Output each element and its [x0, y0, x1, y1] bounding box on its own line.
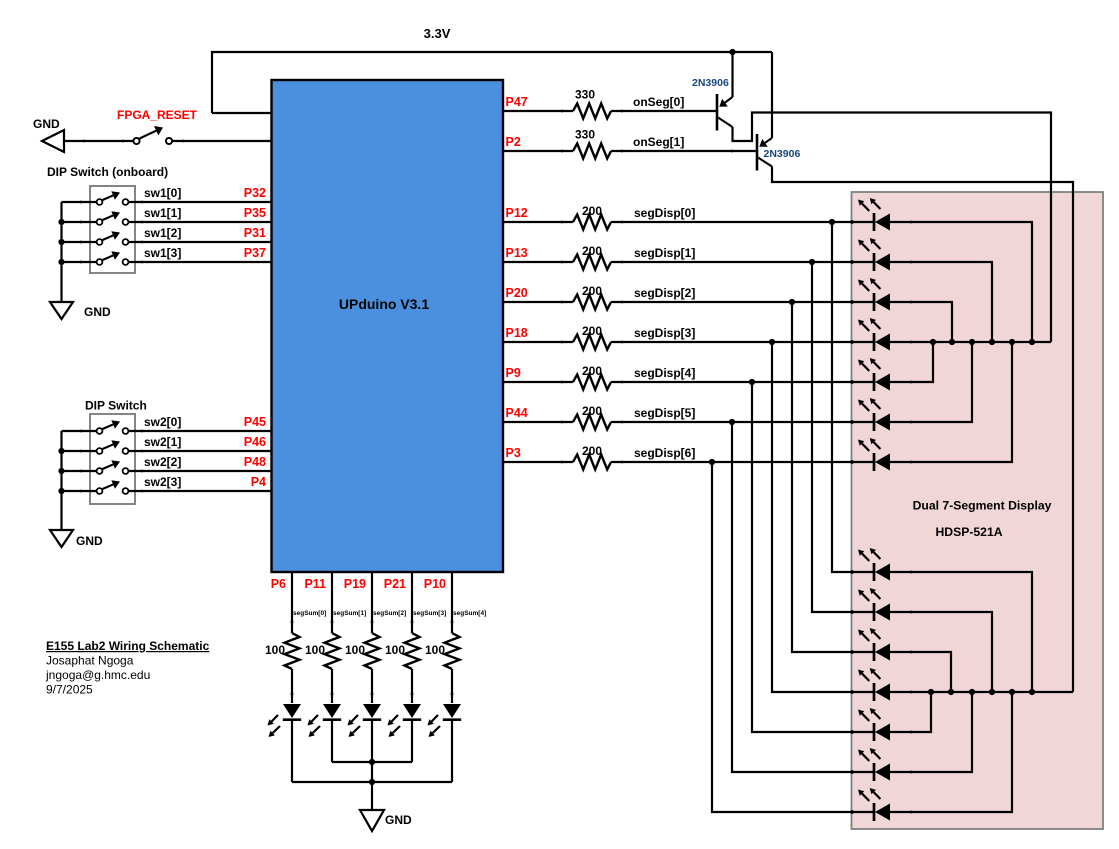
wire LED segSum[2] to gnd bus: [371, 721, 373, 810]
resistor 200 segDisp[3]: [573, 335, 611, 350]
wire LED segSum[3] to gnd bus: [411, 721, 413, 762]
resistor 200 segDisp[5]: [573, 415, 611, 430]
wire sw1[1] to FPGA: [128, 221, 271, 223]
svg-text:FPGA_RESET: FPGA_RESET: [117, 108, 198, 122]
resistor 100 segSum[3]: [405, 633, 420, 669]
svg-text:330: 330: [575, 128, 595, 142]
LED digit1 seg5: [873, 413, 876, 431]
wire segDisp[5] drop to digit2: [732, 422, 874, 772]
svg-text:P35: P35: [244, 206, 266, 220]
resistor 200 segDisp[1]: [573, 255, 611, 270]
svg-text:segDisp[5]: segDisp[5]: [634, 406, 695, 420]
svg-text:P13: P13: [506, 246, 528, 260]
wire resistor to LED segSum[3]: [411, 669, 413, 703]
svg-text:sw1[1]: sw1[1]: [144, 206, 181, 220]
svg-text:P18: P18: [506, 326, 528, 340]
LED digit2 seg3: [873, 683, 876, 701]
junction sw2 common: [58, 448, 64, 454]
svg-text:P4: P4: [251, 475, 266, 489]
svg-text:P44: P44: [506, 406, 528, 420]
resistor R1 330: [573, 104, 611, 119]
wire digit1 seg5 anode: [890, 342, 972, 422]
wire sw2[2] to FPGA: [128, 470, 271, 472]
svg-text:P31: P31: [244, 226, 266, 240]
svg-text:P21: P21: [384, 577, 406, 591]
svg-text:GND: GND: [84, 305, 111, 319]
wire Q1 emitter to 3.3V: [731, 52, 733, 97]
LED digit1 seg3: [873, 333, 876, 351]
svg-text:sw2[2]: sw2[2]: [144, 455, 181, 469]
wire sw1[3] to FPGA: [128, 261, 271, 263]
wire digit2 seg2 anode: [890, 652, 951, 692]
wire reset switch to FPGA: [172, 140, 272, 142]
wire segDisp[3] drop to digit2: [772, 342, 874, 692]
svg-text:segSum[4]: segSum[4]: [453, 610, 486, 617]
LED segSum[3]: [403, 704, 421, 718]
LED digit2 seg2: [873, 643, 876, 661]
svg-text:P32: P32: [244, 186, 266, 200]
svg-text:2N3906: 2N3906: [764, 148, 801, 160]
svg-text:GND: GND: [33, 117, 60, 131]
LED digit2 seg0: [873, 563, 876, 581]
svg-text:200: 200: [582, 404, 602, 418]
svg-text:P2: P2: [506, 135, 521, 149]
wire P3 to resistor: [503, 461, 573, 463]
switch S1.2: [97, 219, 103, 225]
resistor 200 segDisp[6]: [573, 455, 611, 470]
LED digit1 seg0: [873, 213, 876, 231]
wire gnd bus inner: [332, 761, 412, 763]
wire segDisp[2] to LED digit1: [611, 301, 874, 303]
svg-text:P10: P10: [424, 577, 446, 591]
wire segDisp[0] to LED digit1: [611, 221, 874, 223]
svg-text:UPduino V3.1: UPduino V3.1: [339, 296, 429, 312]
svg-text:200: 200: [582, 204, 602, 218]
switch S1.3: [97, 239, 103, 245]
LED digit1 seg6: [873, 453, 876, 471]
wire resistor to LED segSum[2]: [371, 669, 373, 703]
svg-text:200: 200: [582, 364, 602, 378]
svg-text:P20: P20: [506, 286, 528, 300]
wire sw1[2] gnd stub: [62, 241, 97, 243]
svg-text:GND: GND: [385, 813, 412, 827]
wire P13 to resistor: [503, 261, 573, 263]
resistor R2 330: [573, 144, 611, 159]
switch S2.1: [97, 428, 103, 434]
LED digit1 seg4: [873, 373, 876, 391]
LED digit2 seg4: [873, 723, 876, 741]
svg-text:100: 100: [345, 643, 365, 657]
transistor Q2 2N3906: [756, 134, 759, 171]
wire digit1 seg4 anode: [890, 342, 933, 382]
svg-text:9/7/2025: 9/7/2025: [46, 683, 93, 697]
wire P12 to resistor: [503, 221, 573, 223]
switch S2.2: [97, 448, 103, 454]
wire segDisp[5] to LED digit1: [611, 421, 874, 423]
wire P19 to resistor: [371, 572, 373, 633]
svg-text:100: 100: [425, 643, 445, 657]
junction segDisp[4]: [749, 379, 755, 385]
svg-text:sw2[1]: sw2[1]: [144, 435, 181, 449]
svg-text:segDisp[2]: segDisp[2]: [634, 286, 695, 300]
wire P18 to resistor: [503, 341, 573, 343]
wire digit1 seg6 anode: [890, 342, 1012, 462]
wire onSeg[1] to Q2 base: [611, 150, 756, 152]
wire digit2 seg1 anode: [890, 612, 992, 692]
transistor Q1 2N3906: [716, 94, 719, 131]
svg-text:P3: P3: [506, 446, 521, 460]
switch S2.4: [97, 488, 103, 494]
resistor 100 segSum[4]: [445, 633, 460, 669]
svg-text:Dual 7-Segment Display: Dual 7-Segment Display: [913, 499, 1052, 513]
svg-text:segDisp[6]: segDisp[6]: [634, 446, 695, 460]
wire sw1 common: [60, 202, 62, 302]
svg-text:segDisp[0]: segDisp[0]: [634, 206, 695, 220]
wire Q1 collector: [733, 113, 1052, 343]
svg-text:P19: P19: [344, 577, 366, 591]
LED digit1 seg1: [873, 253, 876, 271]
svg-text:P11: P11: [304, 577, 326, 591]
wire LED segSum[1] to gnd bus: [331, 721, 333, 762]
wire sw2[0] gnd stub: [62, 430, 97, 432]
wire sw1[3] gnd stub: [62, 261, 97, 263]
svg-text:2N3906: 2N3906: [692, 77, 729, 89]
wire LED segSum[0] to gnd bus: [291, 721, 293, 782]
svg-text:segDisp[1]: segDisp[1]: [634, 246, 695, 260]
ground GND (sw2): [50, 530, 73, 547]
wire sw1[0] gnd stub: [62, 201, 97, 203]
wire digit2 common anode: [890, 691, 1073, 693]
svg-text:P6: P6: [271, 577, 286, 591]
wire 3.3V into FPGA: [212, 112, 272, 114]
wire segDisp[6] drop to digit2: [712, 462, 874, 812]
wire digit1 seg1 anode: [890, 262, 992, 342]
resistor 100 segSum[0]: [285, 633, 300, 669]
wire P2 to R2: [503, 150, 573, 152]
resistor 200 segDisp[0]: [573, 215, 611, 230]
svg-text:sw1[2]: sw1[2]: [144, 226, 181, 240]
ground GND (sw1): [50, 302, 73, 319]
wire digit2 seg4 anode: [890, 692, 931, 732]
wire onSeg[0] to Q1 base: [611, 110, 716, 112]
LED digit2 seg1: [873, 603, 876, 621]
svg-text:P12: P12: [506, 206, 528, 220]
wire digit2 seg5 anode: [890, 692, 972, 772]
svg-text:sw1[0]: sw1[0]: [144, 186, 181, 200]
svg-text:P45: P45: [244, 415, 266, 429]
LED segSum[0]: [283, 704, 301, 718]
wire segDisp[4] drop to digit2: [752, 382, 874, 732]
switch S1.4: [97, 259, 103, 265]
wire LED segSum[4] to gnd bus: [451, 721, 453, 782]
wire sw1[0] to FPGA: [128, 201, 271, 203]
wire digit2 seg0 anode: [890, 572, 1032, 692]
svg-text:P9: P9: [506, 366, 521, 380]
wire Q2 collector: [772, 167, 1073, 693]
LED segSum[1]: [323, 704, 341, 718]
wire P21 to resistor: [411, 572, 413, 633]
junction 3.3V / Q1 emitter: [729, 49, 735, 55]
wire digit1 seg2 anode: [890, 302, 952, 342]
switch S1.1: [97, 199, 103, 205]
svg-text:100: 100: [385, 643, 405, 657]
junction segDisp[1]: [809, 259, 815, 265]
wire sw1[2] to FPGA: [128, 241, 271, 243]
LED segSum[2]: [363, 704, 381, 718]
svg-text:segDisp[3]: segDisp[3]: [634, 326, 695, 340]
LED digit1 seg2: [873, 293, 876, 311]
junction segDisp[0]: [829, 219, 835, 225]
svg-text:jngoga@g.hmc.edu: jngoga@g.hmc.edu: [45, 668, 150, 682]
wire reset gnd to switch: [64, 140, 134, 142]
wire resistor to LED segSum[1]: [331, 669, 333, 703]
wire P11 to resistor: [331, 572, 333, 633]
wire segDisp[4] to LED digit1: [611, 381, 874, 383]
wire gnd bus outer: [292, 781, 452, 783]
svg-text:330: 330: [575, 88, 595, 102]
wire sw2[2] gnd stub: [62, 470, 97, 472]
svg-text:sw2[3]: sw2[3]: [144, 475, 181, 489]
svg-text:Josaphat Ngoga: Josaphat Ngoga: [46, 654, 134, 668]
wire sw2[1] gnd stub: [62, 450, 97, 452]
wire P47 to R1: [503, 110, 573, 112]
wire segDisp[3] to LED digit1: [611, 341, 874, 343]
svg-text:DIP Switch (onboard): DIP Switch (onboard): [47, 165, 168, 179]
wire segDisp[1] to LED digit1: [611, 261, 874, 263]
svg-text:200: 200: [582, 244, 602, 258]
ground GND (reset): [42, 130, 64, 152]
DIP switch S1 body: [90, 186, 135, 273]
wire digit1 common anode: [890, 341, 1051, 343]
wire sw2 common: [60, 431, 62, 530]
svg-text:GND: GND: [76, 534, 103, 548]
svg-text:onSeg[1]: onSeg[1]: [633, 135, 684, 149]
wire sw2[0] to FPGA: [128, 430, 271, 432]
resistor 100 segSum[1]: [325, 633, 340, 669]
LED digit2 seg6: [873, 803, 876, 821]
junction segDisp[3]: [769, 339, 775, 345]
wire 3.3V rail: [212, 52, 772, 113]
svg-text:sw1[3]: sw1[3]: [144, 246, 181, 260]
resistor 200 segDisp[4]: [573, 375, 611, 390]
resistor 200 segDisp[2]: [573, 295, 611, 310]
ground GND (segSum): [360, 810, 384, 831]
wire sw2[3] to FPGA: [128, 490, 271, 492]
wire sw2[3] gnd stub: [62, 490, 97, 492]
svg-text:100: 100: [305, 643, 325, 657]
svg-text:segSum[0]: segSum[0]: [293, 610, 326, 617]
svg-text:segSum[3]: segSum[3]: [413, 610, 446, 617]
junction segDisp[2]: [789, 299, 795, 305]
svg-text:segSum[2]: segSum[2]: [373, 610, 406, 617]
LED segSum[4]: [443, 704, 461, 718]
junction segDisp[5]: [729, 419, 735, 425]
svg-text:100: 100: [265, 643, 285, 657]
wire P6 to resistor: [291, 572, 293, 633]
wire P9 to resistor: [503, 381, 573, 383]
svg-text:200: 200: [582, 444, 602, 458]
wire Q2 emitter to 3.3V: [771, 52, 773, 138]
wire sw1[1] gnd stub: [62, 221, 97, 223]
wire resistor to LED segSum[0]: [291, 669, 293, 703]
wire segDisp[2] drop to digit2: [792, 302, 874, 652]
wire resistor to LED segSum[4]: [451, 669, 453, 703]
wire digit1 seg0 anode: [890, 222, 1032, 342]
junction gnd bus: [369, 759, 375, 765]
wire sw2[1] to FPGA: [128, 450, 271, 452]
svg-text:sw2[0]: sw2[0]: [144, 415, 181, 429]
wire digit2 seg6 anode: [890, 692, 1012, 812]
svg-text:E155 Lab2 Wiring Schematic: E155 Lab2 Wiring Schematic: [46, 639, 210, 653]
wire P20 to resistor: [503, 301, 573, 303]
svg-text:200: 200: [582, 284, 602, 298]
svg-text:HDSP-521A: HDSP-521A: [935, 525, 1002, 539]
svg-text:segDisp[4]: segDisp[4]: [634, 366, 695, 380]
LED digit2 seg5: [873, 763, 876, 781]
svg-text:P46: P46: [244, 435, 266, 449]
wire segDisp[0] drop to digit2: [832, 222, 874, 572]
wire P44 to resistor: [503, 421, 573, 423]
DIP switch S2 body: [90, 414, 135, 504]
display Dual 7-Segment HDSP-521A: [852, 192, 1104, 829]
switch FPGA_RESET: [133, 138, 139, 144]
switch S2.3: [97, 468, 103, 474]
svg-text:200: 200: [582, 324, 602, 338]
svg-text:onSeg[0]: onSeg[0]: [633, 95, 684, 109]
svg-text:P47: P47: [506, 95, 528, 109]
svg-text:DIP Switch: DIP Switch: [85, 399, 147, 413]
resistor 100 segSum[2]: [365, 633, 380, 669]
wire segDisp[1] drop to digit2: [812, 262, 874, 612]
wire P10 to resistor: [451, 572, 453, 633]
svg-text:P37: P37: [244, 246, 266, 260]
FPGA board UPduino V3.1: [272, 80, 504, 572]
wire segDisp[6] to LED digit1: [611, 461, 874, 463]
svg-text:segSum[1]: segSum[1]: [333, 610, 366, 617]
junction sw1 common: [58, 219, 64, 225]
svg-text:P48: P48: [244, 455, 266, 469]
svg-text:3.3V: 3.3V: [424, 26, 451, 41]
junction segDisp[6]: [709, 459, 715, 465]
